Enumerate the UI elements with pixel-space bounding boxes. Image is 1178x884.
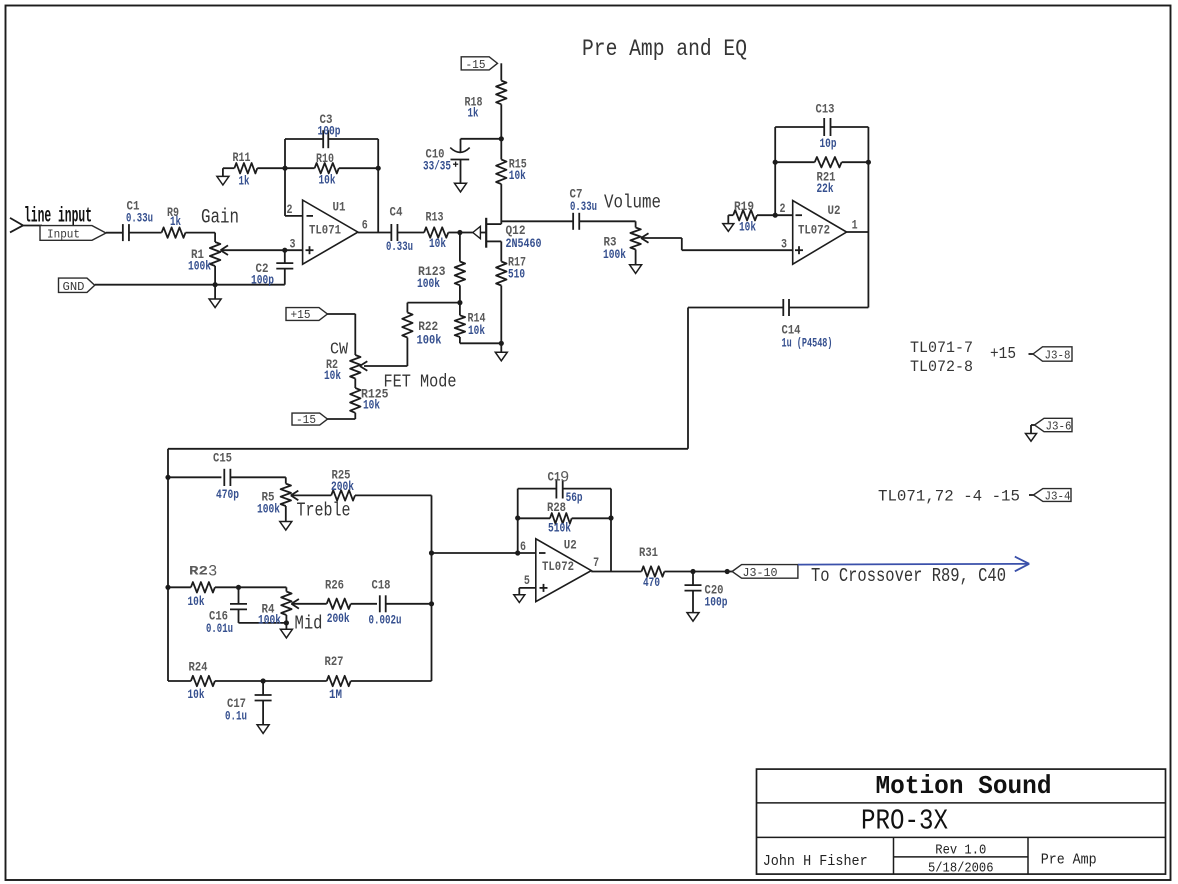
capacitor C17 [225,681,272,725]
net flag Input [40,226,106,242]
svg-text:3: 3 [290,237,296,252]
transistor Q12 2N5460 [460,218,542,251]
svg-text:U2: U2 [564,538,577,553]
svg-text:10k: 10k [188,594,205,609]
node C16 top [236,585,241,590]
ground at R5 [280,522,292,531]
capacitor C4 [386,205,413,254]
note TL071,72 -4 -15 [878,488,1020,506]
potentiometer R1 [188,233,228,285]
resistor R22 [402,313,441,367]
ground at C20 [687,613,699,622]
svg-text:C18: C18 [372,578,391,593]
resistor R28 [518,500,611,536]
net flag J3-8 [1029,347,1073,363]
wire U2 feedback top rail [775,126,868,128]
wire Q12 drain to C7 [501,220,573,222]
svg-text:R27: R27 [325,654,344,669]
svg-text:+15: +15 [990,345,1016,364]
resistor R23 [168,563,239,610]
ground at R11 [217,168,229,185]
node C20 top [690,569,695,574]
net flag J3-4 [1029,489,1071,504]
svg-text:100p: 100p [318,123,341,138]
svg-text:100k: 100k [417,276,440,291]
resistor R17 [496,241,526,343]
svg-text:9: 9 [560,469,569,487]
label +15 power [990,345,1016,364]
svg-text:0.33u: 0.33u [126,211,153,226]
svg-text:5/18/2006: 5/18/2006 [928,861,994,876]
ground at J3-6 [1026,434,1037,442]
capacitor C13 [816,102,837,152]
potentiometer R4 Mid [258,587,299,627]
ground at C17 [257,725,269,734]
wire U1 feedback left vertical [282,139,287,216]
op-amp U1 [303,200,358,265]
label FET Mode [384,373,457,393]
wire C14 to tone network [168,308,688,682]
pin 2 of U1 [285,202,303,217]
potentiometer R2 [324,314,367,383]
title block John H Fisher [763,853,868,870]
resistor R15 [496,157,527,185]
note TL071-7 TL072-8 [910,339,973,376]
svg-text:100k: 100k [257,502,280,517]
pin 6 of U2 second half [520,539,526,554]
svg-text:10k: 10k [739,220,756,235]
op-amp U2 [793,201,847,265]
svg-text:To Crossover R89, C40: To Crossover R89, C40 [811,565,1006,587]
svg-text:J3-8: J3-8 [1045,348,1071,362]
svg-text:200k: 200k [331,479,354,494]
label To Crossover R89 C40 [811,565,1006,587]
op-amp U2 second half [536,538,592,602]
svg-text:TL072-8: TL072-8 [910,358,973,376]
svg-text:5: 5 [524,573,530,588]
ground at R1 bottom [209,285,221,308]
pin 1 of U2 [852,218,858,233]
wire C4 to R13 [397,232,424,234]
svg-text:2: 2 [780,201,786,216]
svg-text:GND: GND [63,280,85,294]
svg-text:Mid: Mid [295,613,323,635]
svg-text:Motion Sound: Motion Sound [876,771,1052,801]
svg-text:R19: R19 [734,199,754,214]
potentiometer R5 Treble [257,477,298,521]
svg-text:33/35: 33/35 [423,159,451,174]
wire R9 to R1 [186,232,216,234]
svg-text:TL071,72 -4 -15: TL071,72 -4 -15 [878,488,1020,506]
resistor R21 [775,157,868,196]
svg-text:2N5460: 2N5460 [506,236,542,251]
svg-text:100p: 100p [251,272,274,287]
title block frame [757,769,1166,874]
svg-text:10k: 10k [319,173,336,188]
svg-text:C1: C1 [548,470,561,485]
svg-text:R2: R2 [189,564,208,579]
wire U2 feedback left vertical [773,127,778,215]
wire node to C10 [461,139,502,152]
resistor R11 [223,150,285,189]
svg-text:1k: 1k [170,214,181,229]
svg-text:100p: 100p [705,595,728,610]
pin 3 of U2 [781,237,787,252]
ground at pin 5 [514,595,525,603]
svg-text:3: 3 [208,563,217,581]
capacitor C7 [570,187,598,230]
resistor R18 [465,63,507,139]
wire mid row to R4 [239,586,287,588]
svg-text:100k: 100k [417,333,442,348]
wire Input flag to C1 [106,232,123,234]
ground at R3 [630,265,642,274]
resistor R19 [728,199,775,235]
svg-text:510k: 510k [548,521,571,536]
wire R1 wiper to U1 pin 3 [221,248,303,253]
node mid row left [165,585,170,590]
pin 5 of U2 second half [519,573,536,595]
svg-text:200k: 200k [327,611,350,626]
svg-text:10k: 10k [363,398,380,413]
label line input [24,206,92,229]
svg-text:6: 6 [362,218,368,233]
svg-text:1k: 1k [239,174,250,189]
svg-text:TL071: TL071 [309,223,341,238]
wire ladder to U2 pin 6 [432,550,536,555]
resistor R14 [455,303,502,344]
svg-text:J3-10: J3-10 [743,566,778,580]
svg-text:100k: 100k [603,247,626,262]
svg-text:6: 6 [520,539,526,554]
resistor R26 [325,578,377,626]
svg-text:470p: 470p [216,487,239,502]
capacitor C10 polarized [423,147,470,174]
capacitor C2 [251,250,293,287]
title block PRO-3X [861,805,948,838]
resistor R13 [424,210,460,252]
node R15 top [499,136,504,159]
svg-text:R11: R11 [233,150,251,165]
svg-text:Volume: Volume [604,192,661,214]
svg-text:0.01u: 0.01u [206,621,233,636]
svg-text:56p: 56p [566,490,583,505]
label Gain [201,207,239,230]
svg-text:1u (P4548): 1u (P4548) [782,336,833,351]
capacitor C1 [123,199,153,242]
wire R4 wiper to R26 [291,603,326,605]
svg-text:Pre Amp and EQ: Pre Amp and EQ [582,36,747,62]
svg-text:2: 2 [287,202,293,217]
wire R22 to R2 wiper [364,365,407,367]
svg-text:1M: 1M [329,687,342,702]
capacitor C14 [688,299,868,351]
svg-text:10k: 10k [509,168,526,183]
svg-text:C15: C15 [213,451,232,466]
resistor R27 [325,654,432,702]
ground at R19 [723,224,734,232]
svg-text:C13: C13 [816,102,835,117]
svg-text:TL072: TL072 [542,559,574,574]
svg-text:TL072: TL072 [798,223,830,238]
svg-text:R28: R28 [547,500,566,515]
resistor R25 [331,467,432,500]
capacitor C3 [318,112,341,148]
svg-text:3: 3 [781,237,787,252]
resistor R24 [168,660,327,703]
title block Pre Amp [1041,852,1097,869]
pin 6 of U1 [362,218,368,233]
svg-text:7: 7 [593,555,599,570]
svg-text:PRO-3X: PRO-3X [861,805,948,838]
net flag -15 top [461,57,497,72]
wire U2 feedback right vertical [866,127,871,232]
ground at R4 [280,623,292,638]
svg-text:J3-6: J3-6 [1046,419,1072,433]
svg-text:-15: -15 [466,58,486,72]
wire R5 wiper to R25 [291,494,331,496]
label Treble [297,500,351,522]
capacitor C18 [369,578,432,628]
svg-text:R26: R26 [325,578,344,593]
svg-text:R10: R10 [316,151,334,166]
pin 3 of U1 [290,237,296,252]
title block Rev 1.0 [935,843,986,858]
net flag J3-6 [1031,418,1072,433]
wire U2 output down [847,232,869,308]
svg-text:0.002u: 0.002u [369,612,402,627]
wire C7 to R3 [579,220,636,222]
svg-text:Pre Amp: Pre Amp [1041,852,1097,869]
node C17 top [261,678,266,683]
svg-text:U2: U2 [828,203,841,218]
resistor R123 [417,233,465,303]
node R123 R14 R22 [457,300,462,305]
node source ground junction [499,341,504,346]
svg-text:C4: C4 [390,205,403,220]
svg-text:R24: R24 [189,660,208,675]
svg-text:510: 510 [508,267,525,282]
svg-text:R13: R13 [426,210,444,225]
svg-text:100k: 100k [258,613,281,628]
svg-text:Input: Input [47,228,80,242]
svg-text:10k: 10k [429,236,446,251]
svg-text:1k: 1k [468,106,479,121]
wire Q12 drain up to R15 [500,184,502,224]
ground at C10 [455,160,467,192]
svg-text:10k: 10k [468,323,485,338]
svg-text:Rev 1.0: Rev 1.0 [935,843,986,858]
resistor R9 [162,205,186,238]
label Mid [295,613,323,635]
pin 7 of U2 second half [593,555,599,570]
svg-text:0.33u: 0.33u [386,239,413,254]
svg-text:10k: 10k [324,368,341,383]
wire U1 feedback top rail [285,138,378,140]
resistor R31 [639,545,727,590]
wire U1 feedback right vertical [376,139,381,233]
wire blue output to crossover [798,557,1029,572]
svg-text:0.33u: 0.33u [570,199,597,214]
svg-text:+15: +15 [291,308,311,322]
wire R22 top [407,303,460,313]
input connector chevron [10,218,23,233]
resistor R125 [350,379,389,420]
svg-text:R31: R31 [639,545,658,560]
wire GND flag to R1 bottom [95,282,285,287]
svg-text:John H Fisher: John H Fisher [763,853,868,870]
svg-text:-15: -15 [296,413,316,427]
wire tone ladder right vertical [429,495,434,681]
resistor R10 [285,151,378,188]
wire U2b output [591,571,641,573]
pin 2 of U2 [775,201,793,216]
node gate of Q12 [457,230,462,235]
wire U2b feedback right vertical [608,489,613,572]
svg-text:100k: 100k [188,259,211,274]
net flag +15 [286,308,355,323]
node U2 pin2 [773,213,778,218]
svg-text:470: 470 [643,575,660,590]
wire U2b feedback top rail [518,488,611,490]
svg-text:TL071-7: TL071-7 [910,339,973,357]
capacitor C19 [548,469,583,506]
svg-text:10k: 10k [188,687,205,702]
svg-text:22k: 22k [817,181,834,196]
wire R3 wiper to U2 pin 3 [641,238,793,250]
title text Pre Amp and EQ [582,36,747,62]
capacitor C20 [685,572,728,613]
net flag GND [59,278,95,294]
title block Motion Sound [876,771,1052,801]
potentiometer R3 [603,221,649,264]
svg-text:Treble: Treble [297,500,351,522]
net flag -15 bottom [292,413,355,427]
svg-text:FET Mode: FET Mode [384,373,457,393]
svg-text:0.1u: 0.1u [225,709,247,724]
svg-text:10p: 10p [820,136,837,151]
svg-text:Gain: Gain [201,207,239,230]
node tone input [165,475,170,480]
title block date 5/18/2006 [928,861,994,876]
wire input chevron to Input flag [23,225,42,227]
node J3-10 [725,569,730,574]
svg-text:1: 1 [852,218,858,233]
ground at R17 R14 [495,343,507,361]
label Volume [604,192,661,214]
wire U2b feedback left vertical [515,489,520,553]
wire U1 output to C4 [358,232,392,234]
capacitor C15 [168,451,286,503]
label CW [330,341,349,360]
svg-text:J3-4: J3-4 [1045,489,1071,503]
capacitor C16 [206,587,286,636]
svg-text:U1: U1 [333,200,346,215]
wire C1 to R9 [129,232,162,234]
net flag J3-10 [727,565,798,580]
